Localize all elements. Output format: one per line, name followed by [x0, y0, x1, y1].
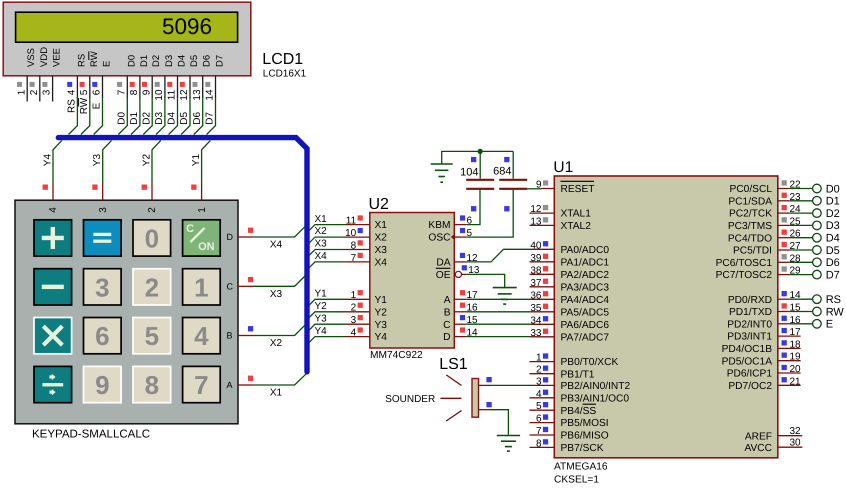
svg-text:20: 20 [790, 364, 802, 375]
U1 pin 39 (PA1/ADC1) [530, 253, 610, 269]
svg-text:8: 8 [351, 240, 357, 251]
LCD1 pin 14 (D7) [205, 55, 226, 101]
svg-text:XTAL1: XTAL1 [561, 209, 592, 220]
svg-text:4: 4 [194, 321, 209, 351]
svg-text:D4: D4 [167, 111, 178, 124]
svg-text:D5: D5 [826, 245, 840, 257]
keypad button x (multiply) [34, 318, 72, 354]
wire top rail to capacitors [442, 151, 514, 163]
keypad button = [84, 220, 122, 256]
keypad button 9 [84, 366, 122, 402]
svg-text:Y3: Y3 [92, 154, 103, 167]
svg-text:AVCC: AVCC [744, 443, 772, 454]
svg-text:5: 5 [79, 89, 90, 95]
U2 pin 15 (C) wire to U1 [443, 315, 530, 331]
svg-text:Y1: Y1 [315, 289, 328, 300]
svg-text:PA4/ADC4: PA4/ADC4 [561, 295, 610, 306]
svg-text:X4: X4 [315, 251, 328, 262]
U1 pin 16 (PD2/INT0) wire to terminal E [727, 315, 833, 331]
ground symbol top left of capacitors [431, 164, 453, 182]
U2 pin 16 (B) wire to U1 [444, 303, 531, 319]
svg-text:2: 2 [29, 89, 40, 95]
U1 pin 12 (XTAL1) [530, 204, 592, 220]
svg-text:E: E [826, 319, 833, 331]
svg-text:C: C [186, 223, 194, 235]
LCD display LCD1 body [3, 2, 251, 76]
svg-text:X3: X3 [315, 239, 328, 250]
svg-text:6: 6 [536, 414, 542, 425]
svg-text:RS: RS [826, 294, 841, 306]
svg-text:D3: D3 [154, 111, 165, 124]
ground symbol below U2 OE [493, 288, 517, 305]
svg-text:4: 4 [351, 327, 357, 338]
U2 pin 5 (OSC) wire to capacitor 684 [428, 190, 513, 244]
U1 pin 34 (PA6/ADC6) [530, 315, 609, 331]
svg-text:13: 13 [468, 265, 480, 276]
LCD1 screen [16, 12, 238, 42]
LCD1 pin 4 (RS) [67, 54, 88, 98]
svg-text:2: 2 [351, 303, 357, 314]
U2 pin 12 (DA) wire to U1 PA0 [436, 249, 530, 268]
svg-text:15: 15 [467, 315, 479, 326]
svg-text:3: 3 [98, 207, 109, 213]
svg-text:D2: D2 [151, 55, 162, 67]
svg-text:PD7/OC2: PD7/OC2 [728, 381, 772, 392]
svg-text:14: 14 [467, 327, 479, 338]
LCD1 pin 9 (D2) [141, 55, 162, 98]
svg-text:PB4/SS: PB4/SS [561, 406, 597, 417]
U1 pin 37 (PA3/ADC3) [530, 278, 610, 294]
svg-text:X1: X1 [315, 214, 328, 225]
svg-text:PC6/TOSC1: PC6/TOSC1 [716, 258, 773, 269]
svg-text:33: 33 [530, 328, 542, 339]
keypad button 2 [133, 269, 171, 305]
svg-text:PB6/MISO: PB6/MISO [561, 431, 609, 442]
svg-text:PD3/INT1: PD3/INT1 [727, 332, 772, 343]
svg-text:LS1: LS1 [439, 356, 468, 373]
bus (blue) from LCD wires to keypad/U2 [58, 138, 307, 372]
svg-text:12: 12 [530, 204, 542, 215]
U2 pin 2 (Y2) with wire from bus [309, 301, 387, 319]
svg-text:CKSEL=1: CKSEL=1 [554, 475, 599, 486]
U1 pin 30 (AVCC) [744, 437, 802, 453]
U2 pin 13 (OE, active low) wire to ground [436, 265, 505, 287]
U1 pin 20 (PD6/ICP1) [727, 364, 801, 380]
svg-text:Y4: Y4 [42, 154, 53, 167]
svg-text:RW: RW [826, 306, 845, 318]
svg-text:9: 9 [141, 89, 152, 95]
svg-text:10: 10 [154, 89, 165, 101]
svg-text:RW: RW [89, 51, 100, 67]
svg-text:13: 13 [192, 89, 203, 101]
wire LS1 top to U1 PB2 [479, 377, 531, 385]
U1 pin 21 (PD7/OC2) [728, 376, 801, 392]
svg-text:4: 4 [48, 207, 59, 213]
svg-text:15: 15 [790, 303, 802, 314]
svg-text:D0: D0 [126, 55, 137, 67]
svg-text:X1: X1 [270, 388, 283, 399]
keypad button 1 [183, 269, 221, 305]
svg-text:E: E [92, 102, 103, 109]
svg-text:3: 3 [95, 272, 109, 302]
U2 pin 7 (X4) with wire from bus [309, 251, 387, 269]
svg-text:D0: D0 [116, 111, 127, 124]
LCD1 pin 7 (D0) [116, 55, 137, 98]
U1 pin 9 (RESET) [536, 180, 595, 196]
svg-text:1: 1 [194, 272, 208, 302]
wire E from LCD pin 6 to bus [92, 97, 103, 135]
svg-text:MM74C922: MM74C922 [370, 350, 423, 361]
svg-text:35: 35 [530, 303, 542, 314]
LCD1 pin 6 (E) [92, 61, 113, 98]
capacitor 684 [493, 151, 527, 211]
svg-text:A: A [227, 380, 233, 390]
svg-text:6: 6 [92, 89, 103, 95]
svg-text:PD0/RXD: PD0/RXD [728, 295, 772, 306]
svg-text:12: 12 [179, 89, 190, 101]
svg-text:D2: D2 [141, 111, 152, 124]
keypad column pin 1, net Y1, wire to bus [191, 140, 210, 212]
svg-text:PA7/ADC7: PA7/ADC7 [561, 332, 610, 343]
svg-text:D5: D5 [189, 55, 200, 67]
svg-text:PB1/T1: PB1/T1 [561, 369, 595, 380]
U1 pin 29 (PC7/TOSC2) wire to terminal D7 [716, 266, 840, 282]
svg-text:4: 4 [536, 389, 542, 400]
svg-text:RW: RW [79, 97, 90, 114]
svg-text:9: 9 [536, 180, 542, 191]
keypad button 7 [183, 366, 221, 402]
keypad row pin B, net X2, wire to bus [227, 325, 305, 349]
overline on W of RW net label [78, 98, 80, 107]
svg-text:7: 7 [536, 426, 542, 437]
svg-text:Y1: Y1 [375, 295, 388, 306]
svg-text:34: 34 [530, 315, 542, 326]
svg-text:14: 14 [205, 89, 216, 101]
svg-text:11: 11 [167, 89, 178, 100]
LCD1 pin 2 (VDD) [29, 47, 50, 102]
svg-text:PD1/TXD: PD1/TXD [729, 307, 772, 318]
svg-text:D7: D7 [215, 55, 226, 67]
svg-text:7: 7 [351, 253, 357, 264]
svg-text:8: 8 [145, 370, 159, 400]
svg-text:4: 4 [67, 89, 78, 95]
svg-text:D6: D6 [826, 257, 840, 269]
svg-text:5096: 5096 [162, 14, 212, 39]
svg-text:26: 26 [790, 229, 802, 240]
U1 pin 38 (PA2/ADC2) [530, 265, 610, 281]
LCD1 pin 10 (D3) [154, 55, 175, 101]
U1 pin 27 (PC5/TDI) wire to terminal D5 [733, 241, 840, 257]
wire D4 from LCD pin 11 to bus [167, 97, 178, 135]
svg-text:D1: D1 [826, 196, 840, 208]
U1 pin 1 (PB0/T0/XCK) [530, 353, 619, 369]
svg-text:A: A [444, 295, 451, 306]
svg-text:D3: D3 [826, 220, 840, 232]
wire D6 from LCD pin 13 to bus [192, 97, 203, 135]
svg-text:E: E [102, 61, 113, 67]
svg-text:17: 17 [467, 290, 479, 301]
svg-text:PC4/TDO: PC4/TDO [728, 233, 772, 244]
U1 pin 40 (PA0/ADC0) [530, 240, 609, 256]
svg-text:D1: D1 [139, 55, 150, 67]
svg-text:2: 2 [536, 365, 542, 376]
svg-text:32: 32 [790, 426, 802, 437]
U1 pin 13 (XTAL2) [530, 216, 592, 232]
svg-text:RS: RS [76, 54, 87, 67]
svg-text:Y1: Y1 [191, 154, 202, 167]
svg-text:D4: D4 [826, 233, 840, 245]
svg-text:VDD: VDD [39, 47, 50, 67]
LCD1 pin 5 (RW) [79, 51, 100, 98]
svg-text:PB7/SCK: PB7/SCK [561, 443, 604, 454]
svg-text:17: 17 [790, 327, 802, 338]
svg-text:PD6/ICP1: PD6/ICP1 [727, 369, 773, 380]
svg-text:16: 16 [790, 315, 802, 326]
svg-text:PC2/TCK: PC2/TCK [729, 209, 772, 220]
svg-text:PA0/ADC0: PA0/ADC0 [561, 245, 610, 256]
svg-text:PC3/TMS: PC3/TMS [728, 221, 772, 232]
keypad button 3 [84, 269, 122, 305]
U1 pin 15 (PD1/TXD) wire to terminal RW [729, 303, 844, 319]
U1 pin 25 (PC3/TMS) wire to terminal D3 [728, 216, 840, 232]
svg-text:3: 3 [42, 89, 53, 95]
svg-text:D6: D6 [192, 111, 203, 124]
svg-text:PC5/TDI: PC5/TDI [733, 246, 772, 257]
U2 pin 4 (Y4) with wire from bus [309, 326, 387, 343]
U1 pin 4 (PB3/AIN1/OC0) [530, 389, 630, 405]
svg-text:PD5/OC1A: PD5/OC1A [722, 356, 773, 367]
svg-text:AREF: AREF [745, 431, 772, 442]
svg-text:X2: X2 [375, 233, 388, 244]
svg-text:29: 29 [790, 266, 802, 277]
svg-text:D7: D7 [826, 269, 840, 281]
svg-text:X4: X4 [375, 258, 388, 269]
U2 pin 17 (A) wire to U1 [444, 290, 531, 306]
svg-text:RESET: RESET [561, 184, 595, 195]
svg-text:PA5/ADC5: PA5/ADC5 [561, 307, 610, 318]
svg-text:39: 39 [530, 253, 542, 264]
svg-text:6: 6 [95, 321, 109, 351]
keypad button 5 [133, 318, 171, 354]
svg-text:23: 23 [790, 192, 802, 203]
wire RW from LCD pin 5 to bus [79, 97, 90, 135]
svg-text:PA2/ADC2: PA2/ADC2 [561, 270, 610, 281]
LCD1 pin 11 (D4) [167, 55, 188, 100]
keypad column pin 3, net Y3, wire to bus [92, 140, 111, 212]
svg-text:X3: X3 [270, 289, 283, 300]
U1 pin 14 (PD0/RXD) wire to terminal RS [728, 290, 841, 306]
U1 pin 24 (PC2/TCK) wire to terminal D2 [729, 204, 840, 220]
svg-text:6: 6 [467, 215, 473, 226]
U1 pin 22 (PC0/SCL) wire to terminal D0 [730, 180, 840, 196]
svg-text:B: B [227, 331, 233, 341]
keypad row pin C, net X3, wire to bus [227, 276, 305, 300]
svg-text:X2: X2 [270, 338, 283, 349]
svg-text:5: 5 [145, 321, 159, 351]
svg-text:D1: D1 [129, 111, 140, 124]
keypad button 4 [183, 318, 221, 354]
svg-text:ATMEGA16: ATMEGA16 [554, 462, 608, 473]
svg-text:D6: D6 [202, 55, 213, 67]
svg-text:13: 13 [530, 216, 542, 227]
svg-text:0: 0 [145, 224, 159, 254]
U2 pin 10 (X2) with wire from bus [309, 226, 387, 244]
LCD1 pin 8 (D1) [129, 55, 150, 98]
svg-text:X3: X3 [375, 245, 388, 256]
svg-text:XTAL2: XTAL2 [561, 221, 592, 232]
svg-text:PB0/T0/XCK: PB0/T0/XCK [561, 357, 619, 368]
wire D0 from LCD pin 7 to bus [116, 97, 127, 135]
sounder LS1 body [440, 375, 478, 421]
keypad row pin D, net X4, wire to bus [227, 227, 305, 251]
svg-text:PD4/OC1B: PD4/OC1B [722, 344, 773, 355]
overline on W of LCD RW inside label [88, 51, 90, 60]
U2 pin 8 (X3) with wire from bus [309, 239, 387, 256]
U1 pin 19 (PD5/OC1A) [722, 352, 801, 368]
svg-text:D: D [443, 332, 450, 343]
svg-text:OSC: OSC [428, 233, 450, 244]
U1 pin 8 (PB7/SCK) [530, 438, 604, 454]
svg-text:OE: OE [436, 270, 451, 281]
svg-text:PA3/ADC3: PA3/ADC3 [561, 282, 610, 293]
svg-text:D: D [227, 232, 234, 242]
svg-text:3: 3 [351, 315, 357, 326]
svg-text:30: 30 [790, 437, 802, 448]
svg-text:Y2: Y2 [141, 154, 152, 167]
svg-text:PC0/SCL: PC0/SCL [730, 184, 773, 195]
svg-text:PC1/SDA: PC1/SDA [728, 196, 772, 207]
svg-text:PA6/ADC6: PA6/ADC6 [561, 320, 610, 331]
U2 pin 14 (D) wire to U1 [443, 327, 530, 343]
svg-text:KEYPAD-SMALLCALC: KEYPAD-SMALLCALC [32, 429, 150, 441]
ground symbol below LS1 [497, 436, 520, 452]
svg-text:SOUNDER: SOUNDER [385, 394, 435, 405]
svg-text:2: 2 [145, 272, 159, 302]
svg-text:1: 1 [197, 207, 208, 213]
svg-text:ON: ON [198, 241, 215, 253]
U1 pin 26 (PC4/TDO) wire to terminal D4 [728, 229, 840, 245]
wire RS from LCD pin 4 to bus [67, 97, 78, 135]
wire LS1 bottom to ground [479, 402, 509, 435]
svg-text:KBM: KBM [428, 220, 450, 231]
LCD1 pin 3 (VEE) [42, 48, 63, 102]
svg-text:C: C [227, 282, 234, 292]
svg-text:PB2/AIN0/INT2: PB2/AIN0/INT2 [561, 381, 631, 392]
wire D5 from LCD pin 12 to bus [179, 97, 190, 135]
svg-text:X1: X1 [375, 220, 388, 231]
svg-text:38: 38 [530, 265, 542, 276]
svg-text:D0: D0 [826, 183, 840, 195]
svg-text:Y3: Y3 [375, 320, 388, 331]
svg-text:Y4: Y4 [315, 326, 328, 337]
svg-text:22: 22 [790, 180, 802, 191]
svg-text:40: 40 [530, 240, 542, 251]
svg-text:D3: D3 [164, 55, 175, 67]
svg-text:VSS: VSS [26, 48, 37, 67]
svg-text:7: 7 [194, 370, 208, 400]
wire capacitor 684 to U1 RESET pin 9 [527, 188, 541, 190]
U1 pin 5 (PB4/SS) [530, 401, 597, 417]
svg-text:U2: U2 [369, 196, 390, 213]
svg-text:LCD16X1: LCD16X1 [263, 69, 307, 80]
U2 pin 6 (KBM) wire to capacitor 104 [428, 190, 480, 231]
U1 pin 6 (PB5/MOSI) [530, 414, 609, 430]
svg-text:PB5/MOSI: PB5/MOSI [561, 418, 609, 429]
wire D7 from LCD pin 14 to bus [205, 97, 216, 135]
svg-text:2: 2 [147, 207, 158, 213]
junction node at capacitor 104 [478, 149, 483, 154]
wire D1 from LCD pin 8 to bus [129, 97, 140, 135]
svg-text:11: 11 [346, 215, 357, 226]
svg-text:8: 8 [129, 89, 140, 95]
svg-text:D2: D2 [826, 208, 840, 220]
keypad column pin 2, net Y2, wire to bus [141, 140, 160, 212]
keypad button 0 [133, 220, 171, 256]
svg-text:Y4: Y4 [375, 332, 388, 343]
U1 pin 32 (AREF) [745, 426, 802, 442]
keypad encoder U2 MM74C922 body [370, 213, 455, 349]
U1 pin 3 (PB2/AIN0/INT2) [531, 376, 631, 392]
svg-text:27: 27 [790, 241, 802, 252]
svg-text:36: 36 [530, 290, 542, 301]
wire D3 from LCD pin 10 to bus [154, 97, 165, 135]
svg-text:D7: D7 [205, 111, 216, 124]
svg-text:18: 18 [790, 339, 802, 350]
keypad button / (divide) [34, 366, 72, 402]
svg-text:U1: U1 [553, 159, 573, 176]
svg-text:PB3/AIN1/OC0: PB3/AIN1/OC0 [561, 393, 630, 404]
U2 pin 1 (Y1) with wire from bus [309, 289, 387, 306]
svg-text:9: 9 [95, 370, 109, 400]
keypad button - (minus) [34, 269, 72, 305]
microcontroller U1 ATMEGA16 body [554, 176, 778, 458]
svg-text:8: 8 [536, 438, 542, 449]
svg-text:104: 104 [460, 166, 478, 178]
svg-text:D4: D4 [177, 55, 188, 67]
U1 pin 7 (PB6/MISO) [530, 426, 609, 442]
svg-text:14: 14 [790, 290, 802, 301]
svg-text:684: 684 [493, 165, 511, 177]
svg-text:1: 1 [536, 353, 542, 364]
keypad column pin 4, net Y4, wire to bus [42, 140, 61, 212]
svg-text:PC7/TOSC2: PC7/TOSC2 [716, 270, 773, 281]
svg-text:Y2: Y2 [315, 301, 328, 312]
svg-text:C: C [443, 320, 450, 331]
keypad KEYPAD-SMALLCALC panel [15, 200, 238, 424]
capacitor 104 [460, 151, 494, 211]
keypad button + [34, 220, 72, 256]
U1 pin 28 (PC6/TOSC1) wire to terminal D6 [716, 253, 840, 269]
keypad row pin A, net X1, wire to bus [227, 374, 307, 399]
U1 pin 17 (PD3/INT1) [727, 327, 801, 343]
U2 pin 3 (Y3) with wire from bus [309, 313, 387, 330]
svg-text:X2: X2 [315, 226, 328, 237]
svg-text:24: 24 [790, 204, 802, 215]
U1 pin 2 (PB1/T1) [530, 365, 595, 381]
svg-text:Y2: Y2 [375, 307, 388, 318]
svg-text:19: 19 [790, 352, 802, 363]
svg-text:PA1/ADC1: PA1/ADC1 [561, 257, 610, 268]
svg-text:28: 28 [790, 253, 802, 264]
svg-text:RS: RS [67, 99, 78, 113]
svg-text:3: 3 [536, 376, 542, 387]
keypad button 6 [84, 318, 122, 354]
svg-text:DA: DA [436, 258, 450, 269]
U1 pin 33 (PA7/ADC7) [530, 328, 609, 344]
keypad button 8 [133, 366, 171, 402]
svg-text:1: 1 [16, 89, 27, 95]
svg-text:25: 25 [790, 216, 802, 227]
